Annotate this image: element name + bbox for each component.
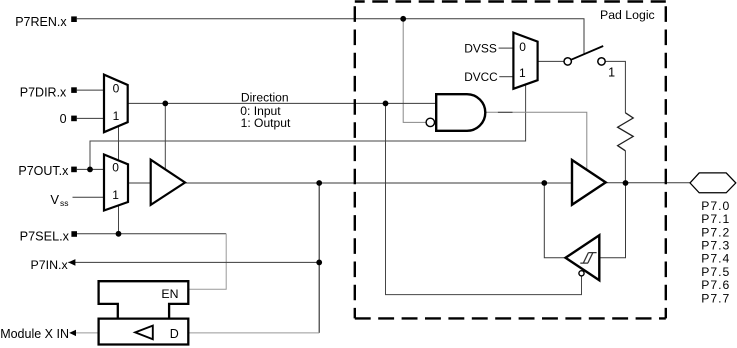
svg-text:P7SEL.x: P7SEL.x <box>20 229 70 243</box>
wire Schmitt output <box>544 183 566 258</box>
svg-text:D: D <box>170 327 179 341</box>
svg-text:P7.4: P7.4 <box>701 252 730 266</box>
node P7IN junction <box>316 260 322 266</box>
node Direction junction 1 <box>162 101 168 107</box>
wire output net <box>185 182 573 184</box>
pad logic dashed boundary bottom <box>355 317 666 319</box>
wire P7SEL select vertical <box>118 126 120 234</box>
wire driver output to pad <box>605 182 691 184</box>
node P7REN junction <box>400 16 406 22</box>
svg-text:0: 0 <box>113 81 120 95</box>
wire P7OUT input <box>77 168 104 170</box>
node P7SEL junction <box>116 231 122 237</box>
svg-text:1: Output: 1: Output <box>241 116 291 130</box>
node output net tap <box>316 180 322 186</box>
terminal P7REN.x <box>71 16 77 22</box>
latch EN box with tab <box>99 281 189 318</box>
gate U4 NAND <box>436 94 485 131</box>
svg-text:P7.6: P7.6 <box>701 278 730 292</box>
svg-text:P7.2: P7.2 <box>701 225 730 239</box>
wire input net vertical <box>318 183 320 333</box>
svg-text:EN: EN <box>161 287 178 301</box>
wire Direction to buffer enable <box>164 103 166 170</box>
svg-text:P7.5: P7.5 <box>701 265 730 279</box>
wire NAND output to driver enable <box>485 112 587 169</box>
wire Direction to Schmitt enable <box>386 103 582 294</box>
wire Vss input <box>73 196 105 198</box>
svg-text:P7.1: P7.1 <box>701 212 730 226</box>
terminal P7DIR.x <box>71 87 77 93</box>
switch contact left <box>564 58 571 65</box>
svg-text:1: 1 <box>519 66 526 80</box>
terminal P7SEL.x <box>71 231 77 237</box>
pad logic dashed boundary right <box>665 2 667 319</box>
wire P7SEL to EN latch <box>188 234 226 289</box>
svg-text:P7.3: P7.3 <box>701 239 730 253</box>
bubble schmitt enable <box>579 271 584 276</box>
svg-text:P7REN.x: P7REN.x <box>15 15 67 29</box>
wire DVCC input <box>499 76 513 78</box>
wire P7REN to NAND bubble <box>403 19 425 123</box>
wire pull mux output <box>538 60 564 62</box>
wire D latch input <box>188 332 319 334</box>
svg-text:1: 1 <box>112 188 119 202</box>
svg-text:0: 0 <box>60 112 67 126</box>
mux U5 pullup/pulldown <box>513 33 537 89</box>
schmitt U7 input buffer <box>566 235 600 280</box>
svg-text:DVSS: DVSS <box>464 41 497 55</box>
wire switch to resistor <box>605 61 625 113</box>
svg-text:Module X IN: Module X IN <box>0 327 69 341</box>
wire Direction net <box>128 102 437 104</box>
wire P7SEL net <box>77 233 226 235</box>
buffer U3 <box>151 160 185 205</box>
switch contact right <box>598 58 605 65</box>
svg-text:V: V <box>50 192 59 207</box>
mux U2 P7OUT <box>104 155 128 211</box>
svg-text:ss: ss <box>60 198 69 208</box>
wire P7OUT to pull mux select <box>90 84 526 169</box>
svg-text:1: 1 <box>113 109 120 123</box>
svg-text:P7DIR.x: P7DIR.x <box>20 86 67 100</box>
wire constant 0 input <box>77 117 104 119</box>
svg-text:P7OUT.x: P7OUT.x <box>18 164 69 178</box>
svg-text:Direction: Direction <box>241 91 289 105</box>
mux U1 P7DIR <box>104 75 128 133</box>
wire NAND output overlap segment <box>498 111 513 113</box>
svg-text:Pad Logic: Pad Logic <box>600 8 655 22</box>
terminal P7OUT.x <box>71 167 77 173</box>
wire pad to Schmitt input <box>599 183 625 258</box>
pad logic dashed boundary top <box>355 0 666 2</box>
node P7OUT junction <box>87 167 93 173</box>
schmitt hysteresis symbol <box>580 253 596 264</box>
wire Module X IN <box>76 332 99 334</box>
driver U6 output <box>572 160 606 205</box>
bubble NAND input <box>426 118 434 126</box>
svg-text:1: 1 <box>608 65 615 79</box>
node pad junction <box>623 180 629 186</box>
wire P7IN net <box>68 261 319 263</box>
svg-text:P7.0: P7.0 <box>701 199 730 213</box>
node schmitt out tap <box>541 180 547 186</box>
wire P7REN.x net <box>77 19 584 54</box>
pad logic dashed boundary left <box>354 2 356 319</box>
terminal constant 0 <box>71 116 77 122</box>
svg-text:DVCC: DVCC <box>464 70 498 84</box>
pad hexagon <box>690 173 736 193</box>
svg-text:P7.7: P7.7 <box>701 291 730 305</box>
wire mux to output buffer <box>128 182 151 184</box>
latch D box <box>99 319 189 345</box>
svg-text:0: 0 <box>519 40 526 54</box>
arrow P7IN.x <box>68 259 75 266</box>
svg-text:P7IN.x: P7IN.x <box>31 258 69 272</box>
resistor R1 <box>618 113 634 151</box>
wire DVSS input <box>499 47 514 49</box>
svg-text:0: 0 <box>112 161 119 175</box>
triangle clock in D box <box>135 326 153 340</box>
node Direction junction 2 <box>383 101 389 107</box>
wire resistor to pad <box>624 151 626 183</box>
switch arm <box>571 46 604 60</box>
arrow Module X IN <box>69 330 76 336</box>
wire P7DIR input <box>77 89 104 91</box>
